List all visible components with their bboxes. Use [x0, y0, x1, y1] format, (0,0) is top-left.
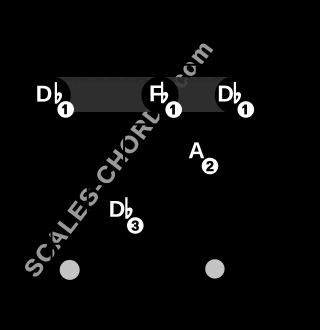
- string 1: [51, 65, 53, 304]
- string 6: [232, 65, 234, 304]
- fret line 3: [51, 243, 235, 245]
- finger badge 1 at (65.7,109.4): [57, 101, 74, 118]
- string 2: [87, 65, 89, 304]
- fret line 2: [51, 183, 235, 185]
- finger disc string4 fret1: [141, 77, 178, 114]
- finger badge 1 at (173.7,109.6): [165, 101, 182, 118]
- fret line 1: [51, 123, 235, 125]
- note label A string5: [189, 142, 204, 158]
- finger badge 2 at (210.0,166.0): [202, 158, 219, 175]
- finger disc string3 fret3: [105, 195, 142, 232]
- flat sign Db string1: [55, 82, 62, 104]
- finger disc string6 fret1: [215, 77, 252, 114]
- barre bar fret 1: [52, 77, 234, 112]
- fretboard grid: 6 strings, 5 fret lines (black over watermark): [51, 65, 235, 304]
- fret inlay marker right: [205, 259, 224, 278]
- note label Db string1: [37, 86, 51, 102]
- string 5: [196, 65, 198, 304]
- flat sign Db string6: [234, 82, 241, 104]
- guitar chord diagram canvas: [0, 0, 255, 330]
- fret line 0: [51, 64, 235, 66]
- note label Db string3: [110, 201, 124, 217]
- string 4: [159, 65, 161, 304]
- finger badge 1 at (245.8,109.5): [238, 101, 255, 118]
- finger disc string5 fret2: [178, 136, 215, 173]
- flat sign Db string3: [125, 197, 132, 219]
- finger disc string1 fret1: [33, 77, 70, 114]
- finger badge 3 at (135.3,225.5): [127, 217, 144, 234]
- fret line 4: [51, 302, 235, 304]
- fret inlay marker left: [60, 260, 80, 280]
- note label Db string6: [219, 86, 233, 102]
- note label Fb string4: [151, 85, 163, 101]
- watermark SCALES-CHORDS.com: [23, 40, 213, 279]
- flat sign Fb string4: [161, 82, 168, 104]
- string 3: [123, 65, 125, 304]
